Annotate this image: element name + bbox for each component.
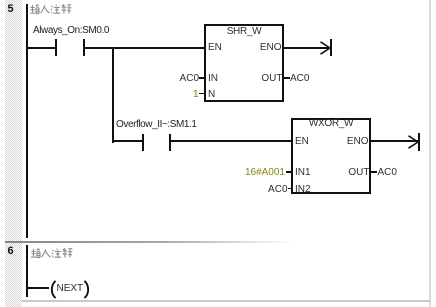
left power rail, network 6 — [26, 245, 28, 297]
WXOR_W title — [291, 119, 371, 129]
coil (NEXT) left paren — [48, 280, 57, 299]
pin EN 2 — [295, 137, 309, 147]
wire ENO 2 to arrow — [371, 140, 418, 142]
pin EN — [208, 43, 222, 53]
pin IN1 — [295, 168, 311, 178]
tick N — [199, 93, 204, 95]
bottom separator line — [22, 300, 430, 302]
operand AC0 from OUT 2 — [378, 168, 397, 178]
rung 2 label Overflow_II~:SM1.1 — [116, 120, 197, 130]
contact Overflow right bar — [169, 134, 171, 152]
tick OUT 2 — [371, 171, 377, 173]
right window border — [429, 0, 431, 307]
arrow bar 1 — [330, 39, 332, 56]
wire ENO to arrow — [284, 47, 330, 49]
tick OUT — [284, 77, 290, 79]
wire contact 1 to SHR_W EN — [85, 47, 205, 49]
pin IN2 — [295, 185, 311, 195]
pin ENO — [204, 43, 282, 53]
tick IN — [199, 77, 204, 79]
wire rail to NEXT coil — [27, 287, 49, 289]
pin ENO 2 — [291, 137, 369, 147]
wire contact 2 to WXOR_W EN — [171, 140, 291, 142]
coil (NEXT) right paren — [83, 280, 92, 299]
network number 5 — [2, 4, 19, 15]
gutter hatch column — [5, 0, 22, 307]
operand 1 into N — [120, 90, 199, 100]
operand AC0 from OUT — [290, 74, 309, 84]
pin N — [208, 90, 215, 100]
contact Overflow left bar — [142, 134, 144, 152]
WXOR_W box U2 — [291, 118, 371, 194]
operand AC0 into IN2 — [200, 185, 288, 195]
pin OUT 2 — [291, 168, 370, 178]
network separator gradient line — [5, 241, 295, 243]
contact Always_On left bar — [55, 39, 57, 56]
tick IN1 — [286, 171, 291, 173]
operand 16#A001 into IN1 — [200, 168, 285, 178]
contact Always_On right bar — [83, 39, 85, 56]
pin IN — [208, 74, 218, 84]
wire branch to contact 2 — [114, 140, 142, 142]
coil NEXT label — [57, 284, 84, 294]
operand AC0 into IN — [120, 74, 199, 84]
SHR_W title — [204, 27, 284, 37]
wire rail to contact 1 — [27, 47, 55, 49]
SHR_W box U1 — [204, 24, 284, 102]
arrow head 2 — [408, 135, 419, 149]
branch wire down to rung 2 — [112, 47, 114, 143]
arrow bar 2 — [418, 133, 420, 151]
network 5 comment 输入注释 — [29, 4, 72, 16]
network number 6 — [2, 246, 19, 257]
pin OUT — [204, 74, 283, 84]
rung 1 label Always_On:SM0.0 — [33, 26, 109, 36]
tick IN2 — [288, 188, 292, 190]
arrow head 1 — [320, 41, 331, 55]
network 6 comment 输入注释 — [30, 248, 73, 260]
left power rail, network 5 — [26, 4, 28, 238]
